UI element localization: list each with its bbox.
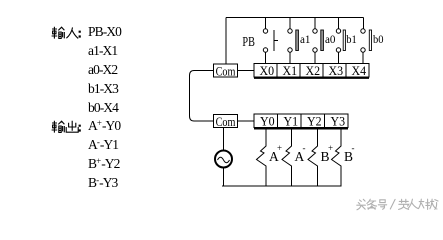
svg-text:+: +: [328, 143, 333, 153]
watermark 头条号 / 荣久科技: [357, 199, 438, 210]
svg-text:b0: b0: [373, 32, 384, 46]
solenoid B+: [308, 128, 333, 187]
svg-text:Com: Com: [216, 114, 236, 129]
wire top supply bus: [226, 17, 364, 19]
svg-text:Y0: Y0: [260, 114, 275, 129]
svg-text:Y3: Y3: [331, 114, 346, 129]
solenoid A+: [257, 128, 283, 187]
input rail underline: [254, 77, 369, 79]
svg-text:Y2: Y2: [307, 114, 322, 129]
svg-text:-: -: [352, 143, 355, 153]
wire Com to Y0: [238, 120, 255, 122]
wire AC source to bottom bus: [223, 168, 225, 187]
svg-text:-: -: [303, 143, 306, 153]
limit switch a1: [288, 18, 311, 64]
legend line B--Y3: [88, 174, 117, 189]
terminal Y1: [278, 114, 302, 129]
limit switch b0: [361, 29, 384, 64]
solenoid A-: [282, 128, 306, 187]
terminal X4: [346, 63, 369, 78]
svg-text:X0: X0: [260, 63, 275, 78]
legend line B+-Y2: [88, 155, 119, 170]
terminal X3: [323, 63, 346, 78]
wire U link between Com terminals: [190, 71, 214, 122]
solenoid B-: [332, 128, 355, 187]
terminal Y2: [301, 114, 325, 129]
terminal X1: [277, 63, 300, 78]
terminal Y3: [325, 114, 349, 129]
svg-text:a1: a1: [300, 32, 311, 46]
svg-text:PB: PB: [242, 34, 255, 49]
terminal Y0: [254, 114, 278, 129]
legend label 输出：: [51, 120, 91, 134]
svg-text:X4: X4: [352, 63, 367, 78]
svg-text:a0: a0: [325, 32, 336, 46]
wire bottom return bus: [222, 185, 342, 187]
svg-text:X1: X1: [283, 63, 298, 78]
terminal Com (input): [214, 63, 238, 78]
terminal X0: [254, 63, 277, 78]
legend line a1-X1: [88, 44, 117, 57]
svg-text:X3: X3: [329, 63, 344, 78]
output rail underline: [254, 128, 348, 130]
wire Com to X0: [238, 70, 255, 72]
legend line b1-X3: [88, 82, 118, 95]
legend line A--Y1: [88, 136, 118, 151]
pushbutton PB: [242, 18, 278, 64]
terminal X2: [300, 63, 323, 78]
wire bus drop to b0: [363, 18, 365, 29]
legend line b0-X4: [88, 101, 118, 114]
svg-text:b1: b1: [346, 32, 357, 46]
limit switch b1: [336, 18, 356, 64]
AC source: [215, 151, 232, 168]
wire left drop from bus to Com: [225, 18, 227, 64]
legend line a0-X2: [88, 63, 117, 76]
svg-text:Com: Com: [216, 63, 236, 78]
limit switch a0: [313, 18, 336, 64]
legend line PB-X0: [88, 25, 121, 38]
legend label 输入：: [51, 26, 91, 40]
svg-text:X2: X2: [306, 63, 321, 78]
terminal Com (output): [214, 114, 238, 129]
svg-text:Y1: Y1: [284, 114, 299, 129]
legend line A+-Y0: [88, 117, 120, 132]
svg-text:+: +: [277, 143, 282, 153]
wire Com down to AC source: [223, 128, 225, 151]
